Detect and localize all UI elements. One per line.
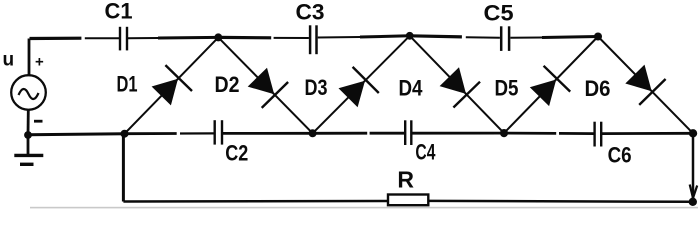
- wire: top rail segment gap to C1: [85, 37, 120, 39]
- wire: top rail thick segment to node B: [360, 36, 410, 37]
- wire: load loop bottom resistor to right corner: [428, 200, 693, 203]
- wire: bottom rail node D to gap: [125, 132, 177, 135]
- wire: top rail C1 to node A: [127, 37, 158, 39]
- svg-text:C6: C6: [608, 143, 632, 168]
- diode D3 diagonal wire: [313, 36, 410, 134]
- svg-text:C2: C2: [225, 141, 248, 166]
- wire: top rail node B to C5: [410, 36, 462, 37]
- wire: load loop right vertical: [692, 133, 695, 202]
- svg-text:D4: D4: [399, 76, 424, 101]
- node E (bottom rail junction 2): [309, 129, 317, 137]
- capacitor C4: [405, 119, 436, 164]
- wire: load loop left vertical: [122, 134, 125, 202]
- capacitor C3: [296, 0, 325, 55]
- resistor R body: [388, 195, 428, 206]
- diode D1 cathode bar: [165, 65, 192, 91]
- diode D5 triangle: [530, 80, 556, 107]
- wire: top rail C5 to node C: [510, 37, 542, 39]
- wire: bottom rail source node to node D: [28, 134, 125, 135]
- wire: bottom rail gap to C6: [559, 132, 595, 135]
- capacitor C1: [105, 0, 133, 52]
- wire: top rail node A to gap: [218, 36, 271, 40]
- wire: bottom rail node E to C4: [313, 132, 368, 135]
- wire: bottom rail C6 to node G: [601, 132, 693, 135]
- diode D4 triangle: [440, 67, 466, 94]
- svg-text:D2: D2: [215, 72, 240, 97]
- wire: bottom rail gap to C2: [180, 132, 215, 134]
- diode D4 diagonal wire: [410, 36, 504, 133]
- wire: top rail thick segment to node C: [542, 37, 598, 38]
- node A (top rail junction 1): [214, 33, 222, 41]
- svg-text:+: +: [35, 54, 44, 71]
- diode D2 diagonal wire: [218, 37, 312, 133]
- node D (bottom rail junction 1): [121, 130, 129, 138]
- svg-text:u: u: [3, 50, 15, 71]
- AC source sine wave: [19, 89, 39, 99]
- wire: source bottom to bottom rail node: [27, 110, 30, 135]
- scan shadow line along bottom: [30, 207, 698, 209]
- svg-text:D6: D6: [585, 76, 611, 101]
- wire: top rail gap to C5: [466, 36, 500, 39]
- node G (bottom right junction): [689, 129, 697, 137]
- diode D6 cathode bar: [639, 79, 665, 105]
- capacitor C2: [215, 119, 249, 165]
- wire: vertical from top rail down to source top: [28, 39, 31, 76]
- svg-text:C4: C4: [415, 140, 436, 165]
- node at source minus terminal: [24, 131, 32, 139]
- svg-text:R: R: [397, 166, 414, 192]
- diode D3 triangle: [339, 81, 366, 108]
- capacitor C5: [484, 1, 514, 52]
- diode D5 diagonal wire: [504, 37, 598, 134]
- wire: top rail C3 to node B: [318, 36, 360, 39]
- node at load loop bottom right corner: [689, 198, 697, 206]
- diode D2 cathode bar: [262, 82, 288, 108]
- ground: [14, 135, 43, 164]
- svg-text:C3: C3: [296, 0, 325, 25]
- node F (bottom rail junction 3): [500, 129, 508, 137]
- diode D3 cathode bar: [353, 67, 379, 93]
- diode D4 cathode bar: [453, 82, 480, 108]
- svg-text:C1: C1: [105, 0, 133, 24]
- wire: bottom rail C2 to node E: [222, 132, 313, 135]
- output current arrow head: [690, 185, 698, 199]
- diode D2 triangle: [248, 68, 275, 95]
- wire: bottom rail C4 to node F: [411, 132, 504, 135]
- svg-text:C5: C5: [484, 1, 514, 26]
- svg-text:D5: D5: [495, 76, 519, 101]
- label - polarity: [34, 120, 43, 123]
- diode D6 diagonal wire: [598, 37, 693, 134]
- diode D1 diagonal wire: [125, 37, 219, 133]
- wire: bottom rail node F to C6: [504, 132, 556, 135]
- svg-text:D3: D3: [305, 75, 328, 100]
- svg-text:D1: D1: [117, 72, 138, 97]
- wire: bottom rail gap to C4: [370, 132, 406, 135]
- diode D1 triangle: [152, 79, 178, 106]
- node B (top rail junction 2): [406, 32, 414, 40]
- wire: load loop bottom left segment to resistor: [123, 200, 388, 203]
- diode D6 triangle: [625, 65, 651, 92]
- AC source U1 circle: [11, 75, 46, 110]
- diode D5 cathode bar: [544, 66, 571, 92]
- wire: top rail gap to C3: [274, 37, 309, 39]
- node C (top rail junction 3): [594, 33, 602, 41]
- wire: top rail segment from source to gap: [30, 37, 82, 40]
- capacitor C6: [595, 121, 632, 168]
- wire: top rail thick segment to node A: [158, 36, 218, 40]
